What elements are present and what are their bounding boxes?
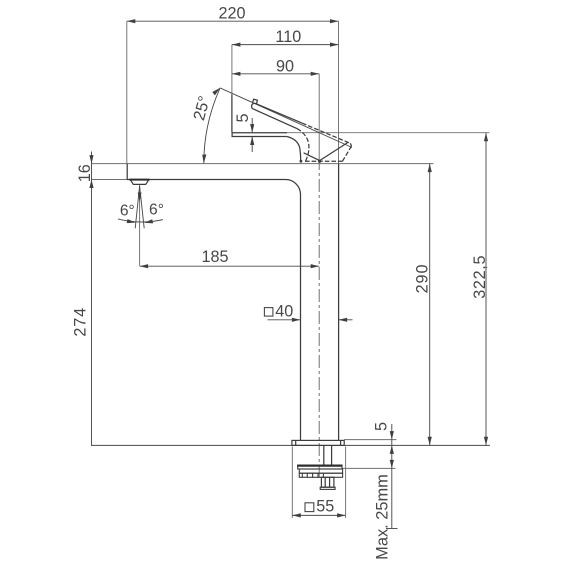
dimension square 40 (264, 302, 352, 322)
handle lever end nub (253, 99, 258, 104)
handle lever top edge solid part (255, 103, 302, 123)
wire: extension line spout tip vertical x=126.8 (126, 21, 128, 163)
svg-text:274: 274 (72, 307, 90, 337)
handle bottom hidden edge dashed (303, 160, 343, 162)
svg-text:110: 110 (275, 28, 301, 46)
column right edge (338, 164, 340, 441)
dimension 322,5 (471, 133, 489, 446)
construction line 25 degrees (220, 88, 352, 148)
svg-text:40: 40 (275, 302, 293, 320)
faucet neck curve (287, 137, 301, 161)
svg-text:185: 185 (201, 248, 228, 266)
wire: extension line column right vertical x=338.5 (338, 21, 340, 163)
washer bar1 (298, 465, 342, 469)
faucet head lower step (232, 133, 287, 137)
dimension 290 (414, 164, 432, 446)
svg-text:5: 5 (373, 422, 391, 431)
svg-text:290: 290 (414, 264, 432, 294)
faucet head chin line y=132.7 (232, 132, 287, 134)
wire: reference line nozzle underside y=179.5 left part (92, 179, 128, 181)
faucet spout head left edge (231, 95, 233, 133)
svg-text:90: 90 (276, 57, 294, 75)
base plate inner right tick (340, 440, 342, 445)
nut stud inner left (324, 477, 326, 487)
dimension 185 (140, 248, 320, 268)
node centerline: faucet axis dash-dot x=319.2 (318, 157, 320, 477)
spout underside line (127, 179, 286, 181)
svg-text:6°: 6° (149, 202, 164, 219)
dimension 25 degree arc (190, 88, 220, 163)
node: neck curve end dot (300, 160, 303, 163)
dimension 6 degree fan (118, 186, 164, 228)
washer bar3 with thread ticks (299, 473, 342, 477)
handle front curve hidden (297, 129, 309, 162)
handle base V left (304, 153, 320, 161)
wire: square55 left extension x=292.3 (291, 447, 293, 519)
handle end face (343, 146, 352, 161)
dimension 220 (127, 5, 339, 24)
wire: square55 right extension x=345.6 (345, 447, 347, 519)
threaded stud right (331, 445, 333, 465)
svg-text:322,5: 322,5 (471, 255, 489, 299)
svg-text:6°: 6° (120, 203, 135, 220)
handle lever bottom edge (253, 109, 297, 129)
dimension 90 (232, 57, 319, 76)
handle base V right (320, 143, 348, 161)
handle lever top edge hidden dashed part (302, 123, 350, 143)
threaded stud left (323, 445, 325, 465)
wire: washer top extension y=468.4 (343, 467, 396, 469)
svg-text:55: 55 (316, 498, 334, 516)
column left edge (300, 195, 302, 441)
nut (321, 477, 334, 487)
nozzle aerator (130, 180, 149, 185)
base plate (292, 440, 344, 445)
handle right top corner (350, 143, 351, 146)
svg-text:5: 5 (234, 113, 252, 122)
node: pivot dot (318, 160, 321, 163)
wire: countertop line y=445.4 (91, 444, 490, 446)
nut stud inner right (329, 477, 331, 487)
dimension square 55 (292, 498, 345, 518)
wire: reference line spout underside level y=163.6 (92, 163, 434, 165)
handle lever left end cap (252, 103, 255, 109)
svg-text:220: 220 (218, 5, 245, 23)
wire: extension line handle pivot vertical x=319.2 (318, 74, 320, 157)
wire: nozzle jet centerline x=139.6 (139, 184, 141, 265)
wire: base plate top extension y=439.6 (344, 439, 397, 441)
dimension 5 spout chin (234, 113, 254, 152)
wire: reference line head chin level y=132.7 (287, 132, 490, 134)
washer bar2 (299, 469, 342, 473)
svg-text:Max. 25mm: Max. 25mm (374, 474, 392, 560)
spout to column rounded corner (286, 180, 301, 195)
dimension 16 and 274 vertical line x=91.5 (72, 152, 95, 446)
dimension 5 base plate and Max. 25mm (373, 422, 398, 560)
base plate inner left tick (295, 440, 297, 445)
svg-text:16: 16 (76, 164, 94, 182)
dimension 110 (232, 28, 339, 47)
wire: extension line head left vertical x=231.9 (231, 45, 233, 95)
spout tip edge (126, 164, 128, 180)
nut flange (320, 487, 335, 489)
